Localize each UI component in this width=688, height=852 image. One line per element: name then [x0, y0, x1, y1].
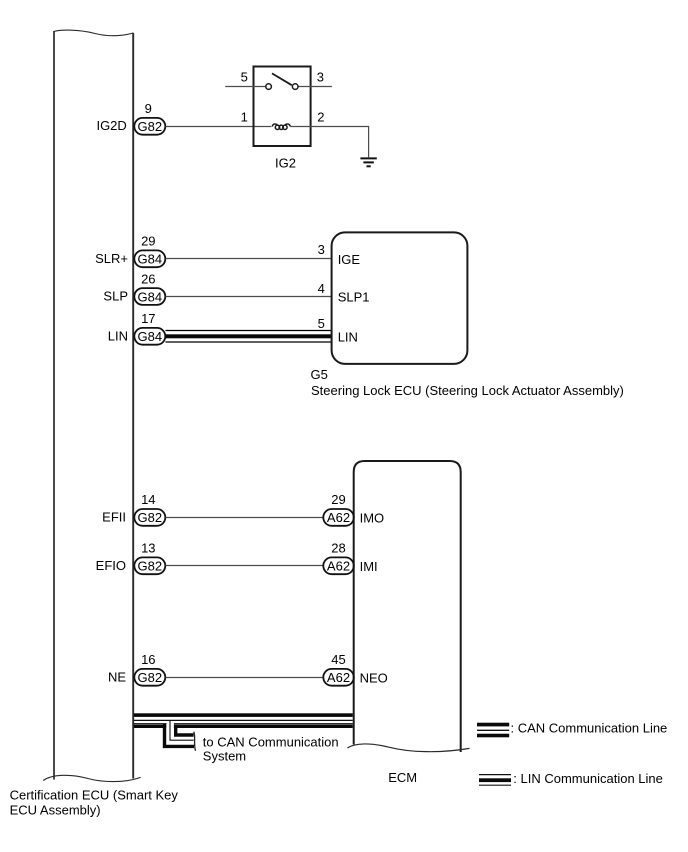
- svg-text:17: 17: [141, 311, 155, 326]
- relay IG2 box: [254, 67, 311, 147]
- svg-text:EFIO: EFIO: [96, 558, 126, 573]
- svg-text:29: 29: [331, 492, 345, 507]
- svg-text:IMI: IMI: [360, 559, 378, 574]
- svg-text:SLR+: SLR+: [95, 251, 128, 266]
- Certification ECU bar body: [43, 30, 141, 781]
- wire: G82-14 to A62-29: [166, 517, 324, 519]
- wire: relay pin 5 lead: [225, 86, 266, 88]
- svg-text:A62: A62: [327, 670, 350, 685]
- svg-text:EFII: EFII: [102, 510, 126, 525]
- svg-text:LIN: LIN: [338, 330, 358, 345]
- svg-text:G84: G84: [138, 252, 163, 267]
- svg-text:5: 5: [241, 70, 248, 85]
- connector G82 pin 16 (NE): [134, 669, 165, 686]
- svg-text:NEO: NEO: [360, 671, 388, 686]
- svg-text:13: 13: [141, 541, 155, 556]
- ground: [360, 158, 376, 166]
- svg-text:IG2D: IG2D: [96, 118, 126, 133]
- svg-text:G82: G82: [138, 119, 163, 134]
- svg-text:ECU Assembly): ECU Assembly): [10, 803, 101, 818]
- connector G82 pin 9 (IG2D): [134, 118, 165, 135]
- connector A62 pin 28 (IMI): [323, 557, 354, 574]
- svg-text:: LIN Communication Line: : LIN Communication Line: [513, 771, 663, 786]
- svg-text:3: 3: [318, 242, 325, 257]
- svg-text:45: 45: [331, 652, 345, 667]
- relay IG2 coil: [272, 124, 290, 130]
- ECM box: [354, 461, 461, 752]
- svg-text:16: 16: [141, 652, 155, 667]
- svg-text:1: 1: [241, 109, 248, 124]
- svg-text:26: 26: [141, 271, 155, 286]
- svg-text:G5: G5: [311, 367, 328, 382]
- connector G84 pin 26 (SLP): [134, 288, 165, 305]
- wire: G84-26 to G5 SLP1: [166, 296, 332, 298]
- svg-text:14: 14: [141, 492, 155, 507]
- svg-text:IGE: IGE: [338, 252, 361, 267]
- wire: relay pin 3 lead: [298, 86, 332, 88]
- svg-text:: CAN Communication Line: : CAN Communication Line: [511, 720, 668, 735]
- svg-text:2: 2: [317, 109, 324, 124]
- svg-text:G84: G84: [138, 329, 163, 344]
- svg-text:5: 5: [318, 316, 325, 331]
- wire: G84-29 to G5 IGE: [166, 258, 332, 260]
- legend LIN communication line symbol: [479, 775, 511, 786]
- svg-text:SLP1: SLP1: [338, 290, 370, 305]
- connector G84 pin 17 (LIN): [134, 328, 165, 345]
- svg-text:IG2: IG2: [275, 156, 296, 171]
- svg-text:to CAN Communication: to CAN Communication: [203, 735, 339, 750]
- connector G82 pin 13 (EFIO): [134, 557, 165, 574]
- svg-text:Steering Lock ECU (Steering Lo: Steering Lock ECU (Steering Lock Actuato…: [311, 383, 624, 398]
- wire: G82-9 to relay IG2 pin 1: [166, 126, 272, 128]
- svg-text:Certification ECU (Smart Key: Certification ECU (Smart Key: [10, 787, 179, 802]
- relay IG2 switch contacts: [266, 73, 298, 89]
- CAN branch to CAN communication system: [165, 720, 196, 750]
- svg-text:29: 29: [141, 234, 155, 249]
- svg-text:A62: A62: [327, 510, 350, 525]
- ECM bottom torn edge: [347, 744, 469, 752]
- svg-text:System: System: [203, 748, 246, 763]
- svg-text:ECM: ECM: [388, 770, 417, 785]
- wire: G82-16 to A62-45: [166, 677, 324, 679]
- svg-text:G82: G82: [138, 670, 163, 685]
- svg-text:LIN: LIN: [108, 328, 128, 343]
- svg-text:G84: G84: [138, 289, 163, 304]
- wire: G82-13 to A62-28: [166, 565, 324, 567]
- Steering Lock ECU box G5: [332, 232, 468, 364]
- LIN communication line: G84-17 to G5-5: [166, 331, 332, 343]
- connector G82 pin 14 (EFII): [134, 509, 165, 526]
- legend CAN communication line symbol: [477, 723, 509, 738]
- connector G84 pin 29 (SLR+): [134, 250, 165, 267]
- svg-text:G82: G82: [138, 510, 163, 525]
- svg-text:4: 4: [318, 281, 325, 296]
- svg-text:SLP: SLP: [103, 289, 128, 304]
- svg-text:G82: G82: [138, 559, 163, 574]
- CAN bus between Certification ECU and ECM: [134, 713, 353, 728]
- svg-text:28: 28: [331, 541, 345, 556]
- svg-text:IMO: IMO: [360, 511, 385, 526]
- svg-text:3: 3: [317, 70, 324, 85]
- wire: relay pin 2 to ground: [291, 127, 369, 158]
- svg-text:9: 9: [145, 101, 152, 116]
- svg-text:NE: NE: [108, 670, 126, 685]
- connector A62 pin 29 (IMO): [323, 509, 354, 526]
- connector A62 pin 45 (NEO): [323, 669, 354, 686]
- svg-text:A62: A62: [327, 559, 350, 574]
